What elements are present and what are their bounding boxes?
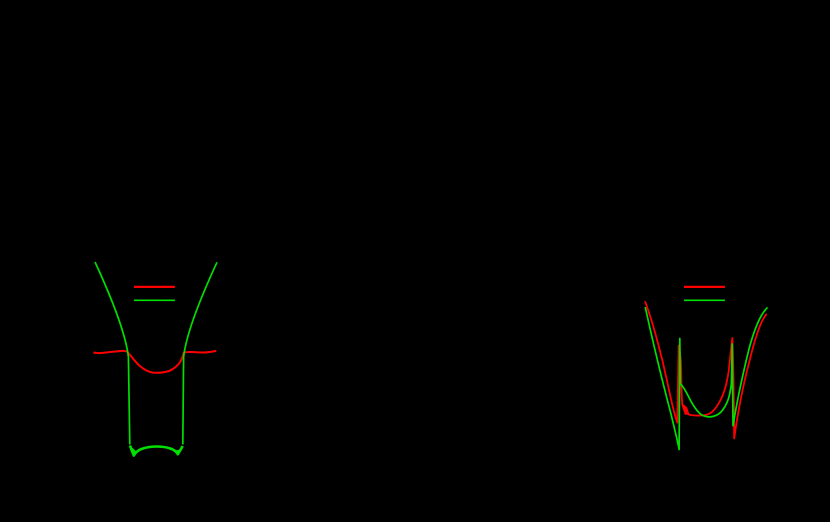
left panel green curve: right wall + right arm (183, 262, 217, 444)
right panel red notch tip blob (733, 428, 735, 439)
left panel green well bottom (130, 446, 183, 456)
left panel green notch blobs (131, 446, 137, 457)
right panel legend green sample (684, 299, 725, 301)
right panel red blob at inner-bowl left edge (683, 404, 690, 415)
left panel legend red sample (134, 286, 175, 288)
left panel legend green sample (134, 299, 175, 301)
right panel legend red sample (684, 286, 725, 288)
right panel green curve (645, 307, 767, 450)
left panel green curve: left arm + left wall (95, 262, 130, 445)
right panel red curve (645, 301, 767, 438)
left panel red curve (93, 351, 216, 373)
